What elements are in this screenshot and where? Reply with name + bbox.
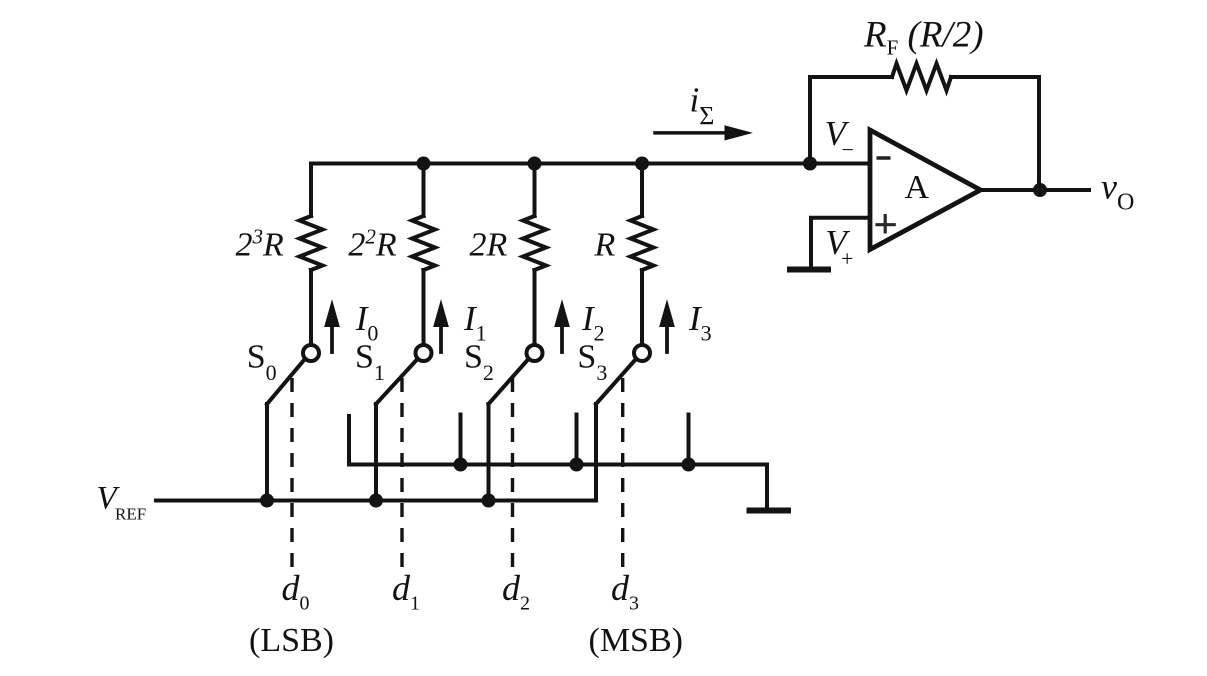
- resistor RF value R/2: [892, 64, 951, 91]
- wire: S3 pole to VREF bus: [594, 404, 598, 501]
- ground symbol (V+ reference): [787, 267, 831, 273]
- wire: branch 3 lower segment: [640, 270, 644, 345]
- switch S1 arm: [376, 360, 417, 405]
- node: ground bus junction 1: [454, 458, 468, 472]
- op-amp minus input marker: [877, 156, 891, 160]
- node: bus junction branch 2: [528, 157, 542, 171]
- resistor R0 value 2^3 R: [300, 216, 323, 270]
- svg-text:(MSB): (MSB): [589, 622, 683, 659]
- wire: feedback right segment down to output: [951, 77, 1039, 190]
- wire: S1 pole to VREF bus: [374, 404, 378, 501]
- ground symbol (ground bus): [747, 508, 792, 514]
- wire: ground bus stub 2: [575, 415, 579, 465]
- node: bus junction branch 1: [417, 157, 431, 171]
- wire: op-amp output: [981, 188, 1090, 192]
- wire: branch 1 lower segment: [422, 270, 426, 345]
- wire: ground bus stub 1: [459, 415, 463, 465]
- wire: branch 0 lower segment: [309, 270, 313, 345]
- svg-text:(LSB): (LSB): [249, 622, 334, 659]
- wire: summing bus (top horizontal line to op-amp inverting input): [311, 162, 868, 166]
- node: bus junction branch 3: [635, 157, 649, 171]
- wire: branch 2 upper segment: [533, 164, 537, 217]
- wire: S2 pole to VREF bus: [487, 404, 491, 501]
- wire: VREF feed line: [156, 499, 596, 503]
- op-amp plus input marker: [875, 214, 895, 234]
- node: ground bus junction 3: [682, 458, 696, 472]
- resistor R2 value 2R: [523, 216, 546, 270]
- op-amp U1 feedback left vertical wire: [810, 77, 892, 164]
- dashed control line d2: [511, 378, 514, 567]
- op-amp U1 triangle: [870, 130, 981, 250]
- svg-text:A: A: [905, 169, 930, 206]
- switch S2 contact circle: [527, 345, 543, 361]
- switch S0 arm: [267, 360, 305, 405]
- node: summing node at op-amp input: [803, 157, 817, 171]
- wire: branch 3 upper segment: [640, 164, 644, 217]
- switch S3 arm: [596, 360, 636, 405]
- node: ground bus junction 2: [570, 458, 584, 472]
- node: output junction: [1033, 183, 1047, 197]
- wire: S0 pole to VREF bus: [265, 404, 269, 501]
- current arrow I2: [555, 301, 569, 352]
- switch S1 contact circle: [416, 345, 432, 361]
- dashed control line d1: [400, 378, 403, 567]
- node: VREF junction S0: [260, 494, 274, 508]
- switch S0 contact circle: [303, 345, 319, 361]
- svg-text:2R: 2R: [470, 227, 508, 264]
- current arrow I0: [325, 301, 339, 352]
- wire: branch 0 upper segment: [309, 164, 313, 217]
- wire: branch 1 upper segment: [422, 164, 426, 217]
- switch S2 arm: [489, 360, 529, 405]
- wire: branch 2 lower segment: [533, 270, 537, 345]
- dashed control line d3: [621, 378, 624, 567]
- svg-text:R: R: [594, 227, 616, 264]
- wire: ground bus stub 3: [687, 415, 691, 465]
- dashed control line d0: [290, 378, 293, 567]
- current arrow I3: [660, 301, 674, 352]
- resistor R1 value 2^2 R: [412, 216, 435, 270]
- svg-text:RF (R/2): RF (R/2): [863, 15, 984, 60]
- wire: ground bus with left stub: [349, 416, 767, 508]
- current arrow i_sigma (summing current): [655, 126, 751, 140]
- node: VREF junction S1: [369, 494, 383, 508]
- wire: op-amp noninverting input: [811, 218, 868, 268]
- node: VREF junction S2: [482, 494, 496, 508]
- current arrow I1: [434, 301, 448, 352]
- resistor R3 value R: [631, 216, 654, 270]
- switch S3 contact circle: [634, 345, 650, 361]
